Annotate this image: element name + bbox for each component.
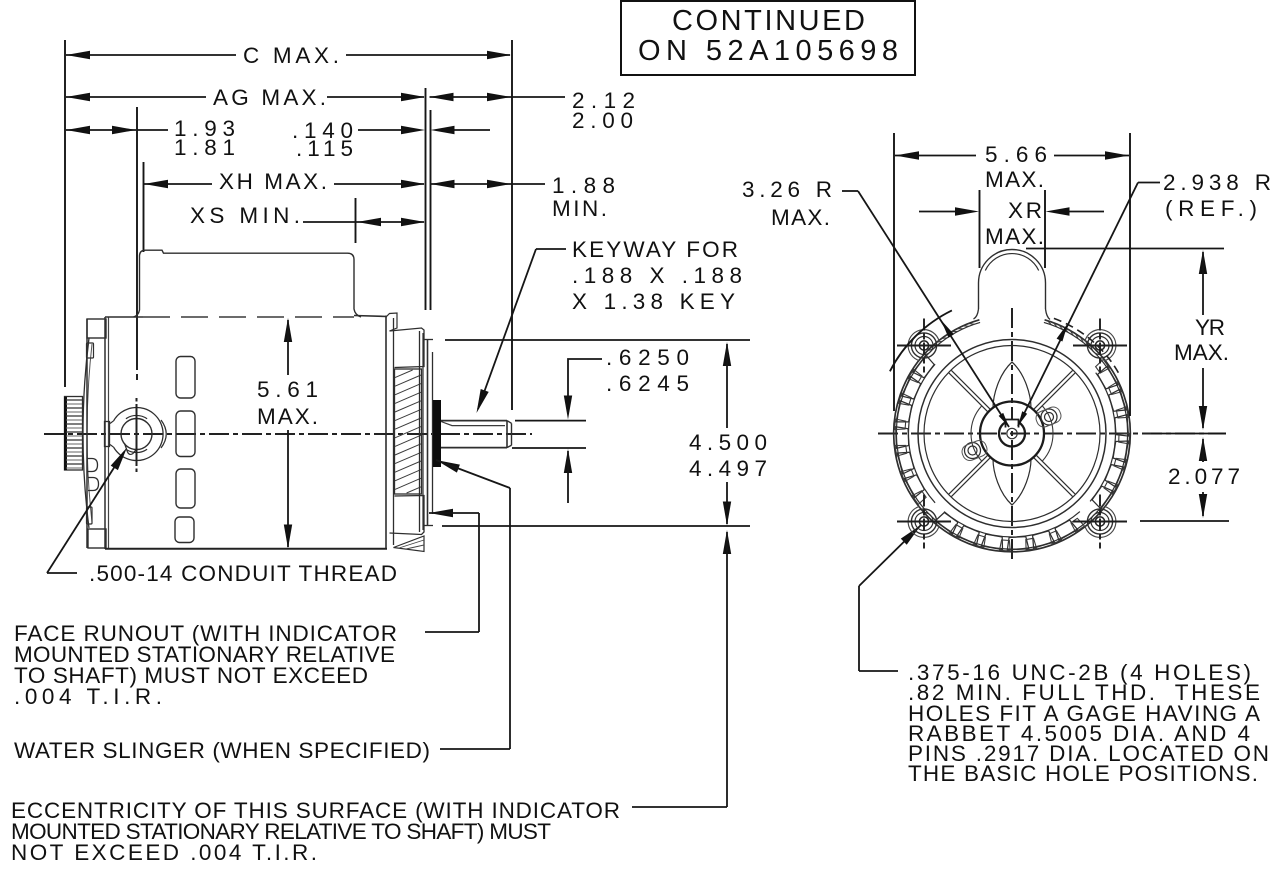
fin slots — [913, 355, 934, 378]
svg-text:C MAX.: C MAX. — [243, 43, 339, 68]
extension line XS tick x355 — [355, 198, 357, 243]
rim inner circle — [896, 322, 1127, 549]
bell oval tab 1 — [87, 459, 98, 472]
boss right bump — [161, 420, 166, 448]
front face plate lines — [86, 319, 88, 548]
dimension 1.88 MIN — [431, 183, 546, 185]
boss keyway notch — [125, 444, 137, 455]
end ring top corner — [386, 313, 397, 331]
svg-text:KEYWAY FOR: KEYWAY FOR — [572, 237, 738, 262]
3.26 R arc — [890, 310, 952, 371]
conduit thread leader — [47, 572, 77, 574]
rim outer circle — [894, 320, 1131, 552]
extension line ring x425.5 — [425, 88, 427, 310]
front view centerline vertical — [1011, 308, 1013, 560]
shaft circle — [999, 421, 1025, 447]
extension line hat left x143 — [143, 162, 145, 252]
dimension 2.077 — [1151, 433, 1226, 435]
small hole left — [965, 443, 981, 459]
svg-text:NOT EXCEED .004 T.I.R.: NOT EXCEED .004 T.I.R. — [11, 840, 317, 865]
center hole — [1007, 428, 1017, 438]
shaft dia extension lines — [515, 420, 586, 422]
bell clip top — [87, 343, 94, 358]
svg-text:2.077: 2.077 — [1168, 464, 1240, 489]
leader 2.938 R — [1138, 182, 1160, 184]
svg-text:.500-14 CONDUIT THREAD: .500-14 CONDUIT THREAD — [89, 561, 397, 586]
svg-text:MAX.: MAX. — [257, 404, 318, 429]
bell left flange bottom — [88, 529, 106, 548]
dimension .6250 .6245 — [568, 359, 602, 361]
svg-text:2.00: 2.00 — [572, 108, 633, 133]
bearing boss arcs — [1043, 406, 1054, 461]
hat (top cover) — [134, 250, 362, 317]
petal top — [993, 362, 1031, 408]
svg-text:(REF.): (REF.) — [1165, 196, 1257, 221]
fin inner arcs — [908, 364, 935, 503]
leader 3.26 R — [842, 190, 858, 192]
vent slot 2 — [176, 411, 195, 457]
svg-text:4.500: 4.500 — [689, 430, 767, 455]
end ring double vertical — [419, 331, 421, 532]
water slinger (black) — [433, 400, 441, 467]
conduit top — [979, 249, 1046, 283]
rabbet face — [427, 340, 429, 527]
bell clip bottom — [87, 507, 93, 524]
dimension C MAX — [66, 54, 236, 56]
small hole right — [1041, 409, 1057, 425]
holes leader — [901, 525, 921, 545]
front view centerline horizontal — [878, 433, 1226, 435]
svg-text:CONTINUED: CONTINUED — [672, 5, 865, 37]
face circle outer — [918, 340, 1106, 528]
knurled knob left — [65, 397, 83, 471]
bolt circle dashed arc — [1054, 318, 1120, 376]
bell left flange top — [87, 319, 106, 338]
svg-text:MAX.: MAX. — [771, 205, 830, 230]
small hole boss left — [960, 438, 989, 462]
svg-text:.6245: .6245 — [606, 371, 689, 396]
svg-text:YR: YR — [1195, 315, 1225, 340]
shaft keyway — [1006, 420, 1019, 428]
extension line ring x431 — [430, 110, 432, 310]
fin hatch band — [395, 369, 422, 494]
boss vertical centerline — [136, 404, 138, 466]
svg-text:MAX.: MAX. — [985, 224, 1044, 249]
spokes — [1034, 370, 1073, 409]
dimension 1.93 1.81 — [66, 129, 136, 131]
ear hole at 225 deg — [908, 506, 939, 537]
end ring bottom hatched foot — [394, 536, 425, 552]
extension line conduit center x137 — [136, 107, 138, 370]
ear hole at 135 deg — [908, 330, 939, 361]
eccentricity leader — [723, 530, 731, 554]
face runout leader — [429, 509, 453, 517]
end ring top panel — [390, 328, 425, 368]
bell arc — [83, 338, 89, 528]
svg-text:.004 T.I.R.: .004 T.I.R. — [14, 684, 162, 709]
boss gasket tab — [105, 422, 110, 447]
extension line left face x65 — [64, 40, 66, 387]
motor centerline — [44, 433, 532, 435]
dimension 2.12 2.00 — [430, 96, 566, 98]
end ring bottom panel — [390, 496, 425, 535]
svg-text:4.497: 4.497 — [689, 456, 767, 481]
dimension XR MAX — [979, 190, 981, 268]
shaft — [441, 420, 507, 422]
dimension YR MAX — [1026, 248, 1224, 250]
svg-text:XR: XR — [1008, 198, 1042, 223]
vent slot 4 — [175, 517, 194, 543]
ear hole at 45 deg — [1085, 330, 1116, 361]
svg-text:WATER SLINGER (WHEN SPECIFIED): WATER SLINGER (WHEN SPECIFIED) — [14, 738, 430, 763]
vent slot 3 — [176, 469, 195, 508]
svg-text:1.81: 1.81 — [174, 135, 235, 160]
face circle inner — [924, 346, 1100, 522]
dimension 4.500 4.497 — [723, 342, 731, 366]
svg-text:5.66: 5.66 — [985, 142, 1047, 167]
small hole boss right — [1034, 405, 1063, 429]
svg-text:.6250: .6250 — [606, 345, 689, 370]
petal bottom — [993, 459, 1031, 505]
keyway leader — [536, 248, 566, 250]
body outline — [105, 316, 143, 318]
svg-text:X 1.38 KEY: X 1.38 KEY — [572, 289, 735, 314]
extension line shaft end x512 — [511, 40, 513, 410]
svg-text:THE BASIC HOLE POSITIONS.: THE BASIC HOLE POSITIONS. — [908, 761, 1258, 786]
water slinger leader — [436, 460, 460, 473]
bell oval tab 2 — [88, 478, 99, 491]
svg-text:5.61: 5.61 — [257, 377, 318, 402]
dimension XH MAX — [144, 183, 212, 185]
svg-text:1.88: 1.88 — [552, 173, 615, 198]
dimension XS MIN — [303, 221, 424, 223]
rim coil ticks — [1090, 345, 1092, 351]
conduit boss outer circle — [114, 408, 163, 461]
fin bricks — [908, 369, 922, 382]
boss thread circle — [121, 419, 152, 450]
svg-text:MAX.: MAX. — [985, 167, 1044, 192]
vent slot 1 — [176, 357, 195, 399]
hub circle — [980, 402, 1044, 466]
svg-text:MAX.: MAX. — [1174, 340, 1229, 365]
dimension 5.66 MAX — [893, 133, 895, 411]
rabbet dia extension lines — [445, 339, 750, 341]
dimension 5.61 MAX — [284, 318, 292, 342]
dimension AG MAX — [66, 96, 206, 98]
ear hole at 315 deg — [1085, 506, 1116, 537]
title box CONTINUED ON 52A105698 — [621, 1, 915, 75]
boss middle arcs — [126, 415, 147, 418]
end ring left edge — [385, 316, 387, 549]
